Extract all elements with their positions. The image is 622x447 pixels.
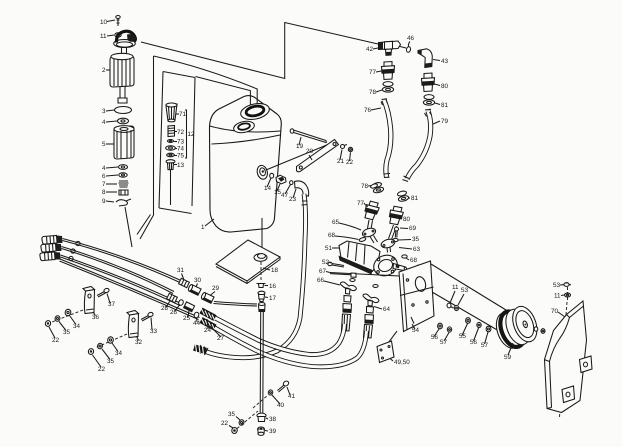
wire below 13 [170,170,172,205]
washer 75 [167,153,175,157]
dashes 35-38 [237,411,258,429]
fitting 77 top [382,62,395,80]
wire emblem to bracket leader [266,142,334,170]
svg-text:34: 34 [115,350,123,357]
rod 38 [260,312,263,414]
svg-text:46: 46 [407,35,415,42]
top fitting on rod [259,303,266,312]
wire tee to elbow segment [396,46,406,49]
plug 13 [166,160,175,170]
flange 65 [361,227,377,243]
svg-text:71: 71 [179,111,187,118]
svg-text:23: 23 [289,196,297,203]
svg-text:78: 78 [361,183,369,190]
SECTION: guard [545,282,593,418]
washers 56 57 group1 [438,323,443,329]
svg-text:22: 22 [98,366,106,373]
svg-text:47: 47 [281,192,289,199]
svg-text:29: 29 [212,285,220,292]
wire panel top edge into filler [154,56,258,107]
washer 4 [118,118,129,124]
washer 11 [115,33,121,37]
screw 10 [116,16,120,27]
svg-text:49,50: 49,50 [394,359,410,366]
svg-text:52: 52 [322,259,330,266]
svg-text:22: 22 [221,420,229,427]
bracket 12 [185,110,187,158]
svg-text:18: 18 [271,267,279,274]
drip tray 18 [216,240,280,284]
pipe 80b to flange 63 [389,225,397,240]
svg-text:37: 37 [108,301,116,308]
pin 19 [290,129,326,143]
svg-text:6: 6 [102,173,106,180]
SECTION: clamps [45,287,158,374]
svg-text:4: 4 [102,119,106,126]
tube 29 to rod [214,302,258,307]
SECTION: upper right stacks [357,35,449,240]
SECTION: bracket 19-22 [290,129,353,172]
svg-text:33: 33 [150,328,158,335]
clamp 36 [83,287,95,314]
washer 34a [64,309,71,317]
svg-text:38: 38 [269,416,277,423]
bolt 33 [141,312,154,321]
washer 47 [290,181,293,185]
hose 24 end ferrule [201,309,215,320]
pump body 51 [339,241,381,275]
plate 49 50 [377,331,397,363]
tube 1 [63,239,182,283]
guard axis dash [560,287,568,418]
svg-text:74: 74 [177,146,185,153]
svg-text:53: 53 [553,282,561,289]
svg-text:20: 20 [306,148,314,155]
svg-text:42: 42 [366,46,374,53]
washer 73 [168,140,174,143]
guard tab 1 [580,356,593,373]
washer 11c [565,293,571,297]
nut 22c [231,427,238,434]
washer 6b [373,285,378,288]
pump flange and shaft [371,252,408,280]
nut 22a [45,320,52,327]
SECTION: pump [317,183,431,338]
svg-text:17: 17 [269,295,277,302]
svg-text:34: 34 [73,323,81,330]
suction hose 23 [197,194,308,358]
pipe 77b to flange 65 [368,220,373,229]
hose 76 [381,99,391,178]
reservoir tank 1 body [210,96,282,232]
tee fitting 42 [379,41,401,55]
washer 22 [348,147,352,151]
washer 40 [268,389,274,395]
svg-text:30: 30 [194,277,202,284]
filler cap 2 assembly [114,31,136,55]
SECTION: long construction lines [125,23,506,332]
bolt 11b 53b [447,303,454,308]
svg-text:70: 70 [551,308,559,315]
svg-text:59: 59 [504,354,512,361]
wing fitting 64 [363,294,379,306]
washers 78c above pump [370,183,378,189]
SECTION: pulley [492,303,545,361]
nut 8 [119,190,128,195]
tank front-top boundary [210,126,281,132]
washers 78 top [382,82,393,93]
bolt 37 [97,288,110,297]
pulley 59 [492,303,542,352]
svg-text:16: 16 [269,283,277,290]
fitting 25 [184,302,195,312]
strainer body 2 [110,53,134,87]
ring 44 [193,312,199,319]
svg-text:11: 11 [554,293,561,300]
nipple 15 [276,175,286,184]
washers 53c [534,327,545,334]
svg-text:68: 68 [328,232,336,239]
svg-text:57: 57 [440,339,448,346]
SECTION: rod38 [221,303,410,436]
bolt head 38 [257,413,266,421]
dashes 36 [52,310,83,322]
svg-text:66: 66 [317,277,325,284]
ring 74 [166,146,176,150]
fitting 30 [188,284,201,295]
washer 35c [97,343,103,350]
wire panel left edge [153,56,155,215]
SECTION: plate54 [399,261,491,349]
svg-text:67: 67 [319,268,327,275]
SECTION: filter column [100,16,136,207]
strip 20 [297,140,339,172]
svg-text:39: 39 [269,428,277,435]
clamp 32 [127,311,139,338]
svg-text:21: 21 [337,158,345,165]
washer 68b [402,255,407,258]
ferrule 31 [179,278,190,287]
fitting 80 lower [387,205,404,226]
svg-text:4: 4 [102,165,106,172]
tube 3 [61,255,182,306]
svg-text:25: 25 [183,315,191,322]
svg-text:73: 73 [177,139,185,146]
svg-text:1: 1 [201,224,205,231]
nut 39 [258,427,265,435]
bolt 21 [341,145,348,149]
elbow 43 [418,49,432,68]
nut 61 [417,265,420,268]
washer 35d [238,419,244,426]
wing fitting 66 [340,282,356,294]
nut 53d [564,283,571,287]
wire inner box left edge [159,72,163,209]
svg-text:11: 11 [452,284,459,291]
washers 78 lower [372,182,384,194]
hose end cap B [41,244,62,253]
svg-text:51: 51 [325,245,333,252]
wire panel bottom corner band [137,215,154,240]
fitting 64 stem [364,307,374,339]
svg-text:8: 8 [102,189,106,196]
svg-text:40: 40 [277,402,285,409]
hose end cap A [42,236,63,245]
fitting 80 top [422,73,435,92]
element 72 [168,126,175,137]
washer 34b [107,336,114,344]
svg-text:79: 79 [441,118,449,125]
cotter pin 9 [116,199,131,206]
ferrule 28 [167,293,178,302]
hose 23 end ferrule [194,345,206,355]
dashes 40 [253,395,268,408]
fitting 66 stem [342,296,352,332]
svg-text:53: 53 [461,287,469,294]
guard tab 2 [562,386,575,403]
svg-text:28: 28 [161,305,169,312]
svg-text:5: 5 [102,141,106,148]
flange 63 [380,238,396,253]
wire shaft axis to pulley [431,264,506,310]
fitting 17 [258,291,265,301]
plug 16 [257,284,266,288]
dashes 32 [95,334,127,348]
svg-text:54: 54 [412,327,420,334]
hose 27 end ferrule [201,319,215,330]
svg-text:77: 77 [357,200,365,207]
tube connector dots [76,241,80,245]
washers 81 lower [397,190,409,202]
washer 4b [119,165,128,170]
belt guard 70 [545,301,587,413]
second opening [233,120,256,135]
SECTION: hoses [194,194,367,367]
washers 81 top [423,95,434,106]
bolt 69 [395,227,399,238]
ring 26 [178,299,184,306]
SECTION: tank [201,96,309,232]
fitting 29 [201,292,214,303]
ring 3 [115,107,132,114]
tube 4 [60,259,200,320]
bolt 41 [278,380,290,392]
breather cap 71 [166,103,177,122]
washer 6a [350,279,355,282]
svg-text:43: 43 [441,58,449,65]
svg-text:68: 68 [410,257,418,264]
washer 35a [393,238,398,241]
washer 6 [119,173,127,177]
svg-text:64: 64 [383,306,391,313]
stem below 2 [120,87,125,98]
svg-text:80: 80 [441,83,449,90]
svg-text:65: 65 [332,219,340,226]
dashed axis below tray [260,262,262,281]
svg-text:75: 75 [177,153,185,160]
tube 2 [62,247,175,294]
washer 14 [270,173,274,178]
wire bolt axis to washers [432,292,499,331]
washers 55 56 57 group2 [466,318,471,324]
svg-text:35: 35 [228,411,236,418]
ring 46 [406,46,411,52]
nut 22b [88,348,95,355]
filler opening [239,101,270,122]
hose end cap C [40,252,61,261]
svg-text:81: 81 [441,102,449,109]
hose 79 [403,109,432,181]
svg-text:81: 81 [411,195,419,202]
svg-text:3: 3 [102,108,106,115]
svg-text:11: 11 [100,33,107,40]
SECTION: tubes [40,236,257,343]
hose 27 to fitting 64 [205,322,367,367]
SECTION: tray [216,218,280,302]
SECTION: inner box parts [166,103,195,205]
svg-text:80: 80 [403,216,411,223]
svg-text:13: 13 [177,162,185,169]
spring 7 [119,181,129,187]
svg-text:78: 78 [369,89,377,96]
svg-text:2: 2 [102,67,106,74]
svg-text:9: 9 [102,198,106,205]
bolt 52 [328,262,344,267]
svg-text:77: 77 [369,69,377,76]
svg-text:35: 35 [63,329,71,336]
svg-text:10: 10 [100,19,108,26]
svg-text:72: 72 [177,129,185,136]
hose 24 to fitting 66 [205,313,345,355]
fitting 77 lower [363,200,381,221]
mounting plate 54 [399,261,434,332]
wire inner box bottom [159,208,192,214]
wire leader cap to riser to tee 42 [141,23,378,79]
svg-text:35: 35 [412,236,420,243]
svg-text:31: 31 [177,267,185,274]
rod from tank to tray [261,218,263,254]
wire inner box right edge [192,78,195,207]
svg-text:26: 26 [170,309,178,316]
svg-text:12: 12 [188,131,196,138]
svg-text:63: 63 [413,246,421,253]
wire leader from item 9 [125,207,132,247]
wire inner box top edge [163,72,195,78]
svg-text:35: 35 [107,358,115,365]
svg-text:76: 76 [364,107,372,114]
washer 68a [359,237,367,242]
emblem on tank [256,164,269,180]
filter element 5 [114,126,134,159]
rod 67 [330,273,409,278]
svg-text:7: 7 [102,181,106,188]
wire leader box to filler [196,77,251,108]
tank crease [212,135,281,144]
svg-text:69: 69 [409,225,417,232]
svg-text:22: 22 [52,337,60,344]
elbow hose 23 upper [295,181,309,196]
washer 35b [54,315,60,322]
